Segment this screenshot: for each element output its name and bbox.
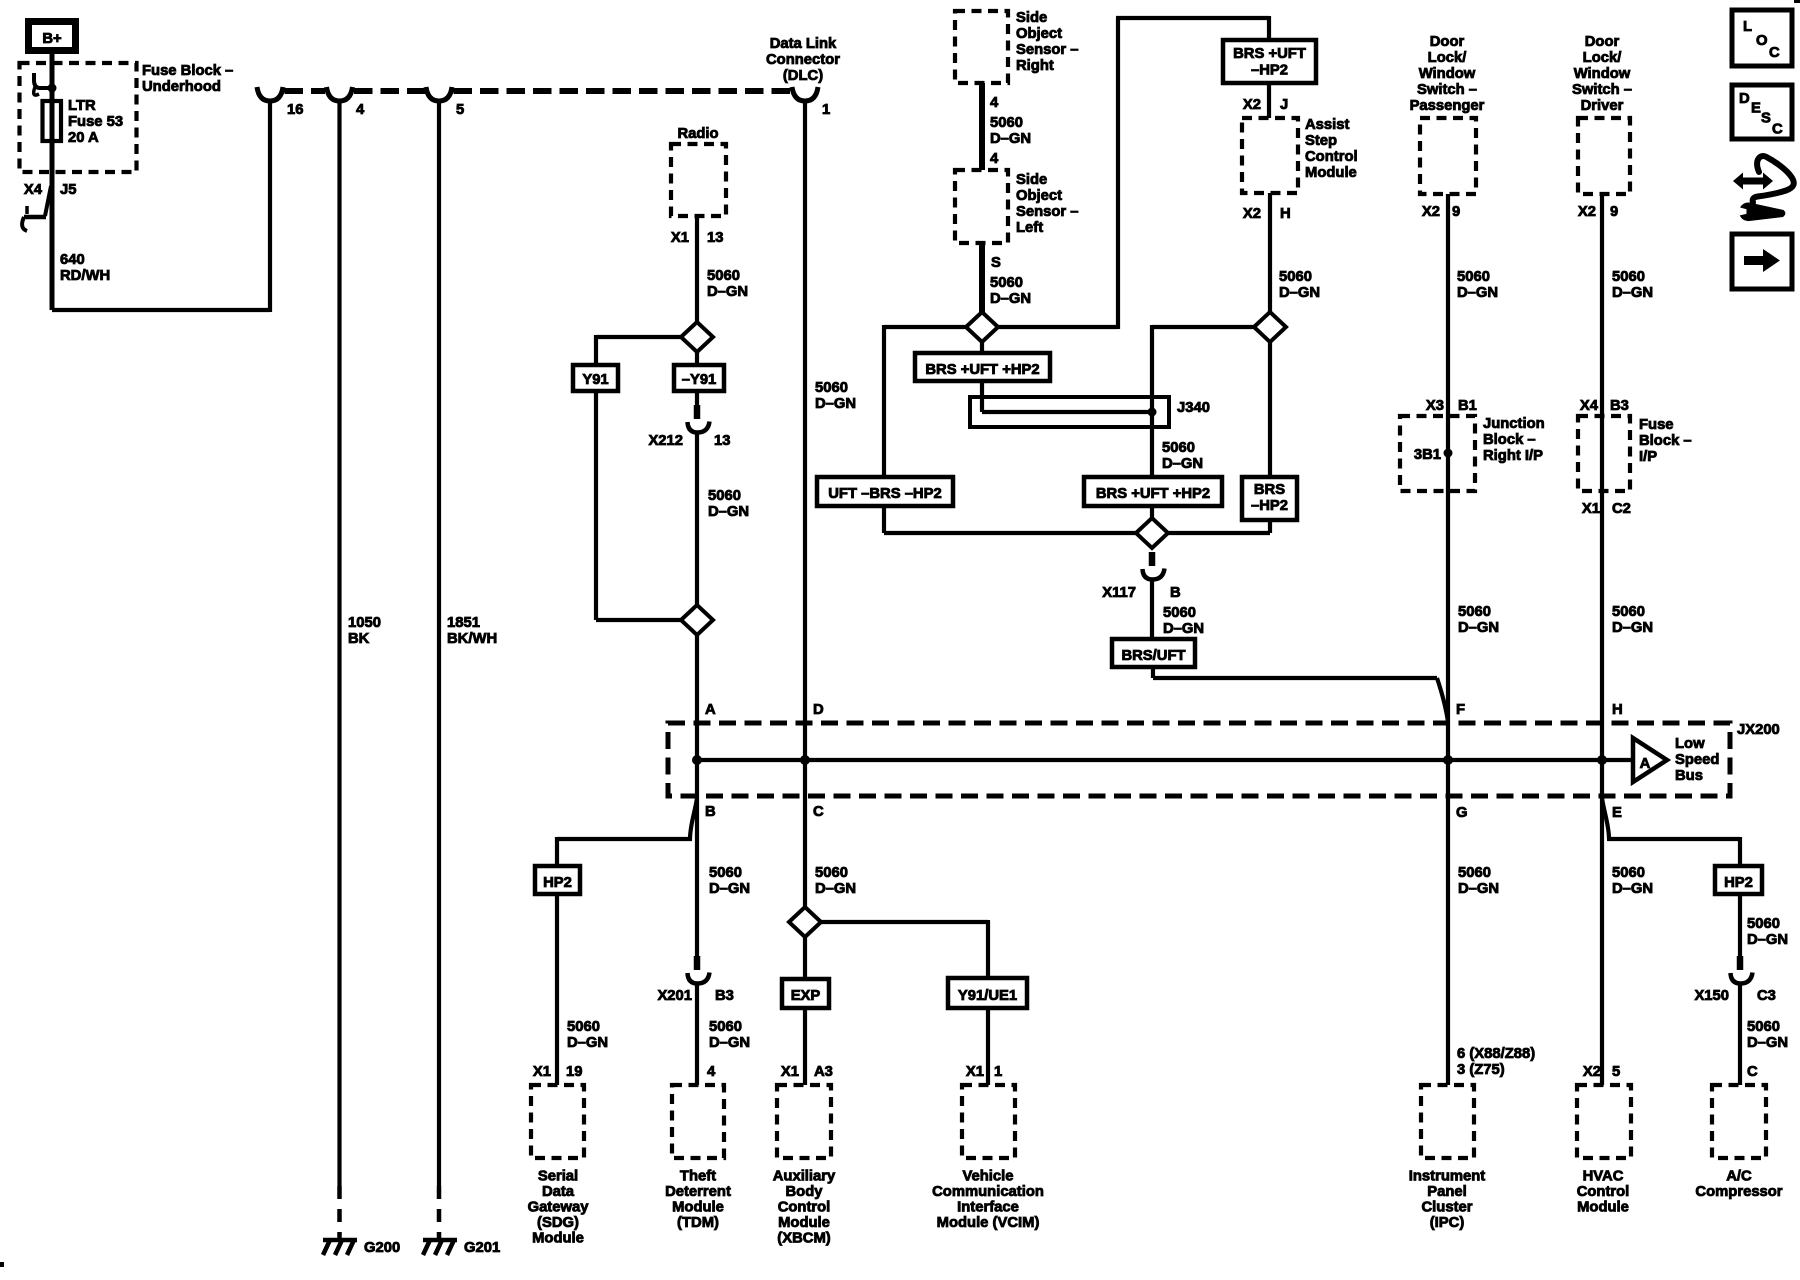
net box BRS +UFT +HP2 upper	[915, 353, 1050, 381]
wire label 5060 D-GN IPC	[1458, 865, 1499, 897]
wire label 5060 D-GN TDM upper	[709, 865, 750, 897]
wire bus pin B to TDM	[695, 760, 699, 1085]
wire EXP to XBCM	[803, 1008, 807, 1085]
wire label 5060 D-GN junction block	[1458, 604, 1499, 636]
wire label 5060 D-GN TDM lower	[709, 1019, 750, 1051]
svg-text:Module: Module	[532, 1231, 584, 1247]
svg-text:Window: Window	[1574, 66, 1631, 82]
svg-text:D–GN: D–GN	[1612, 620, 1653, 636]
svg-text:A/C: A/C	[1726, 1169, 1752, 1185]
wire label 5060 D-GN assist	[1279, 269, 1320, 301]
wire label 5060 D-GN SDG	[567, 1019, 608, 1051]
svg-text:O: O	[1756, 33, 1768, 49]
net box Y91/UE1	[948, 978, 1027, 1008]
svg-text:Theft: Theft	[680, 1169, 716, 1185]
svg-text:Deterrent: Deterrent	[665, 1184, 731, 1200]
wire label 5060 D-GN DLC	[815, 380, 856, 412]
net box EXP	[782, 979, 829, 1008]
svg-text:D–GN: D–GN	[815, 881, 856, 897]
net box HP2 left	[535, 866, 580, 894]
connector cup DLC pin 1	[792, 87, 818, 101]
pin labels X117 B	[1102, 585, 1181, 601]
svg-text:H: H	[1612, 702, 1623, 718]
svg-text:X1: X1	[781, 1064, 799, 1080]
svg-text:Door: Door	[1585, 34, 1620, 50]
wire label 5060 D-GN fuse block IP	[1612, 604, 1653, 636]
svg-text:X1: X1	[1582, 501, 1600, 517]
svg-text:(TDM): (TDM)	[677, 1215, 719, 1231]
junction dot 3B1	[1444, 449, 1453, 458]
svg-text:5060: 5060	[990, 115, 1023, 131]
svg-text:A3: A3	[814, 1064, 833, 1080]
connector hook at fuse block top	[34, 73, 52, 88]
wire diamond to Y91/UE1	[819, 920, 988, 978]
svg-text:Object: Object	[1016, 26, 1062, 42]
svg-text:20 A: 20 A	[68, 130, 99, 146]
svg-text:BK: BK	[348, 631, 370, 647]
connector cup pin 5	[426, 87, 452, 101]
svg-text:X212: X212	[648, 433, 683, 449]
svg-text:C: C	[1772, 122, 1783, 138]
svg-text:Fuse Block –: Fuse Block –	[142, 63, 233, 79]
wire diamond to -Y91	[695, 350, 699, 365]
wire to assist step module	[1267, 83, 1271, 118]
connector X117 symbol	[1143, 552, 1165, 580]
svg-text:X4: X4	[24, 182, 43, 198]
svg-text:BRS: BRS	[1254, 482, 1285, 498]
svg-text:4: 4	[990, 95, 999, 111]
svg-text:A: A	[1640, 756, 1651, 772]
svg-text:Window: Window	[1419, 66, 1476, 82]
net box -Y91	[674, 365, 724, 391]
pin labels X1 C2	[1582, 501, 1631, 517]
svg-text:13: 13	[707, 230, 723, 246]
svg-text:Underhood: Underhood	[142, 79, 221, 95]
svg-text:Serial: Serial	[538, 1169, 578, 1185]
label door lock window switch passenger	[1410, 34, 1485, 114]
svg-text:Instrument: Instrument	[1409, 1169, 1486, 1185]
label fuse block underhood	[142, 63, 233, 95]
splice diamond sensors	[966, 312, 998, 342]
fuse block underhood dashed output bus	[285, 88, 326, 94]
radio module dashed box	[671, 144, 726, 216]
wire -Y91 to lower diamond	[695, 391, 699, 608]
wire sensors diamond loop to assist step module	[996, 16, 1269, 329]
svg-text:5: 5	[456, 102, 464, 118]
svg-text:5060: 5060	[708, 488, 741, 504]
connector cup pin 16	[257, 87, 283, 101]
J340 junction outline rect	[970, 397, 1169, 427]
svg-text:BRS +UFT: BRS +UFT	[1233, 46, 1306, 62]
label side object sensor right	[1016, 10, 1079, 74]
ground stub dashed G201	[437, 1186, 442, 1238]
wire label 5060 D-GN AC upper	[1747, 916, 1788, 948]
svg-text:BK/WH: BK/WH	[447, 631, 497, 647]
svg-text:A: A	[705, 702, 716, 718]
svg-text:D–GN: D–GN	[709, 1035, 750, 1051]
svg-text:4: 4	[356, 102, 365, 118]
label low speed bus	[1675, 736, 1719, 784]
net box UFT -BRS -HP2	[817, 477, 953, 506]
svg-text:13: 13	[714, 433, 730, 449]
svg-text:5060: 5060	[1458, 865, 1491, 881]
wire label 1851 BK/WH	[447, 615, 497, 647]
svg-text:X2: X2	[1422, 204, 1440, 220]
svg-text:Side: Side	[1016, 10, 1047, 26]
wire diamond to EXP	[803, 935, 807, 979]
door lock window switch passenger dashed box	[1420, 118, 1476, 194]
net box BRS/UFT	[1112, 639, 1195, 667]
pin labels X2 J	[1243, 97, 1288, 113]
label door lock window switch driver	[1572, 34, 1632, 114]
svg-text:I/P: I/P	[1639, 449, 1657, 465]
svg-text:Y91: Y91	[582, 372, 608, 388]
svg-text:S: S	[1761, 111, 1771, 127]
net box BRS +UFT -HP2	[1223, 40, 1316, 83]
page corner tick top right	[1794, 0, 1800, 3]
wire bus pin G to IPC	[1446, 760, 1450, 1085]
svg-text:D–GN: D–GN	[1612, 881, 1653, 897]
wire Y91/UE1 to VCIM	[986, 1008, 990, 1085]
svg-text:Right I/P: Right I/P	[1483, 448, 1543, 464]
svg-text:Vehicle: Vehicle	[962, 1169, 1013, 1185]
svg-text:Connector: Connector	[766, 52, 840, 68]
svg-text:Control: Control	[1305, 149, 1358, 165]
wire diamond to bus pin A	[695, 633, 699, 760]
side object sensor left dashed box	[955, 170, 1008, 243]
svg-text:9: 9	[1610, 204, 1618, 220]
pin labels X2 9 driver	[1578, 204, 1618, 220]
ground stub dashed G200	[337, 1186, 342, 1238]
connector X4/J5 splice symbol	[22, 186, 51, 231]
svg-text:X117: X117	[1102, 585, 1136, 601]
svg-text:HVAC: HVAC	[1583, 1169, 1624, 1185]
theft deterrent module dashed box	[672, 1085, 724, 1158]
svg-text:X1: X1	[966, 1064, 984, 1080]
pin labels X1 19 SDG	[533, 1064, 583, 1080]
vehicle communication interface module dashed box	[962, 1085, 1015, 1158]
svg-text:Lock/: Lock/	[1583, 50, 1622, 66]
svg-text:B3: B3	[1610, 398, 1629, 414]
svg-text:Step: Step	[1305, 133, 1337, 149]
svg-text:Sensor –: Sensor –	[1016, 204, 1079, 220]
svg-text:LTR: LTR	[68, 98, 96, 114]
svg-text:C: C	[813, 804, 824, 820]
label vehicle communication interface module	[932, 1169, 1044, 1232]
svg-text:Left: Left	[1016, 220, 1043, 236]
svg-text:(DLC): (DLC)	[783, 68, 823, 84]
pin labels X4 B3	[1580, 398, 1629, 414]
label assist step control module	[1305, 117, 1358, 181]
svg-text:5060: 5060	[1612, 865, 1645, 881]
svg-text:3 (Z75): 3 (Z75)	[1457, 1062, 1505, 1078]
svg-text:640: 640	[60, 252, 85, 268]
wire label 5060 D-GN mid	[1162, 440, 1203, 472]
junction dot bus node D/C	[800, 755, 810, 765]
svg-text:5060: 5060	[1612, 269, 1645, 285]
svg-text:X2: X2	[1578, 204, 1596, 220]
wire HP2 right to X150	[1738, 894, 1742, 1085]
svg-text:9: 9	[1452, 204, 1460, 220]
connector X201 symbol	[688, 956, 710, 984]
wire Y91 down and across	[596, 391, 683, 620]
splice diamond radio bottom	[681, 605, 713, 635]
net box BRS -HP2	[1242, 477, 1297, 520]
svg-text:Bus: Bus	[1675, 768, 1703, 784]
fuse block underhood dashed box	[20, 63, 137, 172]
svg-text:X4: X4	[1580, 398, 1599, 414]
svg-text:C: C	[1747, 1064, 1758, 1080]
svg-text:X2: X2	[1243, 206, 1261, 222]
svg-text:Cluster: Cluster	[1422, 1200, 1473, 1216]
junction block right IP dashed box	[1400, 416, 1475, 491]
svg-text:X1: X1	[533, 1064, 551, 1080]
svg-text:G200: G200	[364, 1240, 400, 1256]
svg-text:Module: Module	[1577, 1200, 1629, 1216]
svg-text:(SDG): (SDG)	[537, 1215, 579, 1231]
svg-text:Switch –: Switch –	[1417, 82, 1477, 98]
wire bus pin E to HVAC	[1600, 760, 1604, 1085]
svg-text:D–GN: D–GN	[990, 131, 1031, 147]
svg-text:C2: C2	[1612, 501, 1631, 517]
wire sensor right pin 4 to sensor left pin 4	[979, 83, 985, 170]
splice diamond XBCM	[789, 907, 821, 937]
net box HP2 right	[1715, 866, 1762, 894]
svg-text:X2: X2	[1243, 97, 1261, 113]
svg-text:JX200: JX200	[1737, 722, 1780, 738]
wire assist module to diamond	[1268, 193, 1272, 314]
wire to Y91 branch	[596, 335, 683, 365]
svg-text:6 (X88/Z88): 6 (X88/Z88)	[1457, 1046, 1535, 1062]
svg-text:D–GN: D–GN	[990, 291, 1031, 307]
wire label 5060 D-GN	[990, 275, 1031, 307]
wire X117 to BRS/UFT	[1150, 578, 1154, 639]
svg-text:C3: C3	[1757, 988, 1776, 1004]
auxiliary body control module dashed box	[777, 1085, 831, 1158]
wire label 5060 D-GN AC lower	[1747, 1019, 1788, 1051]
svg-text:D–GN: D–GN	[708, 504, 749, 520]
svg-text:1050: 1050	[348, 615, 381, 631]
label side object sensor left	[1016, 172, 1079, 236]
splice diamond assist	[1254, 312, 1286, 342]
pin labels IPC 6 X88/Z88 3 Z75	[1457, 1046, 1535, 1078]
svg-text:Speed: Speed	[1675, 752, 1719, 768]
svg-text:D–GN: D–GN	[1457, 285, 1498, 301]
wire BRS -HP2 to diamond	[1164, 520, 1270, 533]
pin labels X3 B1	[1426, 398, 1477, 414]
svg-text:G: G	[1456, 805, 1468, 821]
wire diamond left to J340 column	[1152, 325, 1256, 477]
wire B+ to fuse block	[50, 54, 55, 310]
svg-text:Module: Module	[672, 1200, 724, 1216]
svg-text:(XBCM): (XBCM)	[777, 1231, 830, 1247]
svg-text:D–GN: D–GN	[1279, 285, 1320, 301]
svg-text:D–GN: D–GN	[1458, 620, 1499, 636]
svg-text:Module (VCIM): Module (VCIM)	[937, 1215, 1040, 1231]
net box Y91	[573, 365, 618, 391]
side object sensor right dashed box	[955, 11, 1008, 83]
label HVAC control module	[1577, 1169, 1630, 1216]
wire bus pin E fork to HP2 right	[1602, 798, 1740, 866]
connector X4 J5 labels	[24, 182, 77, 198]
svg-text:Module: Module	[1305, 165, 1357, 181]
icon DESC box	[1732, 85, 1792, 139]
wire BRS box to diamond	[1150, 506, 1154, 521]
fuse block IP dashed box	[1578, 416, 1630, 491]
wire label 5060 D-GN radio	[707, 268, 748, 300]
junction dot bus node F/G	[1443, 755, 1453, 765]
svg-text:EXP: EXP	[791, 988, 821, 1004]
ground symbol G200	[323, 1240, 357, 1255]
label auxiliary body control module	[773, 1169, 836, 1247]
svg-text:BRS +UFT +HP2: BRS +UFT +HP2	[1096, 486, 1210, 502]
ground symbol G201	[423, 1240, 457, 1255]
pin labels X2 5 HVAC	[1583, 1064, 1620, 1080]
svg-text:5060: 5060	[1457, 269, 1490, 285]
wire label 640 RD/WH	[60, 252, 110, 284]
svg-text:D: D	[1739, 91, 1750, 107]
wire diamond down to BRS -HP2	[1268, 340, 1272, 477]
fuse block underhood junction dot	[48, 84, 57, 93]
svg-text:X3: X3	[1426, 398, 1444, 414]
svg-text:Gateway: Gateway	[528, 1200, 590, 1216]
svg-text:E: E	[1612, 805, 1622, 821]
svg-text:BRS +UFT +HP2: BRS +UFT +HP2	[925, 362, 1039, 378]
svg-text:Compressor: Compressor	[1695, 1184, 1782, 1200]
svg-text:J340: J340	[1177, 400, 1210, 416]
svg-text:5060: 5060	[567, 1019, 600, 1035]
splice diamond X117	[1136, 518, 1168, 548]
svg-text:Communication: Communication	[932, 1184, 1044, 1200]
svg-text:Lock/: Lock/	[1428, 50, 1467, 66]
svg-text:L: L	[1743, 19, 1752, 35]
wire label 5060 D-GN	[708, 488, 749, 520]
svg-text:Control: Control	[1577, 1184, 1630, 1200]
svg-text:19: 19	[566, 1064, 582, 1080]
battery B+ symbol	[29, 22, 76, 51]
AC compressor dashed box	[1712, 1085, 1766, 1158]
svg-text:H: H	[1280, 206, 1291, 222]
wire driver switch to bus pin H	[1600, 194, 1604, 760]
svg-text:B3: B3	[715, 988, 734, 1004]
svg-text:Passenger: Passenger	[1410, 98, 1485, 114]
pin labels X1 13	[671, 230, 724, 246]
svg-text:16: 16	[287, 102, 303, 118]
svg-text:4: 4	[990, 151, 999, 167]
svg-text:1851: 1851	[447, 615, 480, 631]
svg-text:Panel: Panel	[1427, 1184, 1466, 1200]
svg-text:Module: Module	[778, 1215, 830, 1231]
svg-text:4: 4	[707, 1064, 716, 1080]
svg-text:J5: J5	[60, 182, 76, 198]
svg-text:D–GN: D–GN	[1612, 285, 1653, 301]
svg-text:5060: 5060	[1162, 440, 1195, 456]
svg-text:5060: 5060	[1747, 1019, 1780, 1035]
svg-text:Data: Data	[542, 1184, 575, 1200]
svg-text:HP2: HP2	[543, 875, 572, 891]
wire label 1050 BK	[348, 615, 381, 647]
svg-text:D–GN: D–GN	[1747, 1035, 1788, 1051]
junction dot bus node H/E	[1597, 755, 1607, 765]
svg-text:UFT –BRS –HP2: UFT –BRS –HP2	[828, 486, 941, 502]
svg-text:5060: 5060	[1458, 604, 1491, 620]
label serial data gateway module	[528, 1169, 590, 1247]
connector X212 symbol	[688, 405, 710, 433]
svg-text:–HP2: –HP2	[1251, 63, 1288, 79]
svg-text:5060: 5060	[707, 268, 740, 284]
label fuse block IP	[1639, 417, 1692, 465]
svg-text:D–GN: D–GN	[1747, 932, 1788, 948]
splice diamond radio top	[681, 322, 713, 352]
page speck bottom left	[0, 1262, 4, 1267]
icon LOC box	[1732, 10, 1792, 66]
svg-text:G201: G201	[464, 1240, 500, 1256]
pin labels X201 B3	[657, 988, 733, 1004]
wire passenger switch to bus pin F	[1446, 194, 1450, 760]
svg-text:5060: 5060	[815, 865, 848, 881]
svg-text:HP2: HP2	[1724, 875, 1753, 891]
svg-text:Low: Low	[1675, 736, 1705, 752]
HVAC control module dashed box	[1577, 1085, 1631, 1158]
svg-text:RD/WH: RD/WH	[60, 268, 110, 284]
connector X150 symbol	[1731, 956, 1753, 984]
net box BRS +UFT +HP2 lower	[1084, 477, 1222, 506]
svg-text:5060: 5060	[1612, 604, 1645, 620]
svg-text:Assist: Assist	[1305, 117, 1349, 133]
svg-text:Y91/UE1: Y91/UE1	[958, 988, 1017, 1004]
svg-text:B: B	[705, 804, 716, 820]
wire into J340 junction	[982, 381, 1152, 412]
svg-text:5060: 5060	[709, 865, 742, 881]
svg-text:D–GN: D–GN	[1458, 881, 1499, 897]
pin labels X2 H	[1243, 206, 1291, 222]
svg-text:D–GN: D–GN	[1162, 456, 1203, 472]
svg-text:(IPC): (IPC)	[1430, 1215, 1465, 1231]
svg-text:5: 5	[1612, 1064, 1620, 1080]
svg-text:5060: 5060	[990, 275, 1023, 291]
wire HP2 to SDG module	[555, 894, 559, 1085]
svg-text:5060: 5060	[1279, 269, 1312, 285]
svg-text:Radio: Radio	[677, 126, 718, 142]
wire sensors diamond down to BRS +UFT +HP2	[980, 340, 984, 353]
junction dot J340	[1148, 408, 1157, 417]
low speed bus amplifier triangle A	[1633, 738, 1667, 782]
label junction block right IP	[1483, 416, 1545, 464]
svg-text:Object: Object	[1016, 188, 1062, 204]
svg-text:Fuse: Fuse	[1639, 417, 1674, 433]
label instrument panel cluster	[1409, 1169, 1486, 1232]
svg-text:Control: Control	[778, 1200, 831, 1216]
door lock window switch driver dashed box	[1578, 118, 1630, 194]
svg-text:5060: 5060	[815, 380, 848, 396]
wire radio pin X1 13	[695, 216, 699, 323]
assist step control module dashed box	[1242, 118, 1298, 193]
svg-text:B: B	[1170, 585, 1181, 601]
svg-text:X2: X2	[1583, 1064, 1601, 1080]
svg-text:D–GN: D–GN	[815, 396, 856, 412]
instrument panel cluster dashed box	[1421, 1085, 1474, 1158]
svg-text:–HP2: –HP2	[1251, 498, 1288, 514]
svg-text:D–GN: D–GN	[707, 284, 748, 300]
svg-text:Sensor –: Sensor –	[1016, 42, 1079, 58]
svg-text:X1: X1	[671, 230, 689, 246]
svg-text:Block –: Block –	[1483, 432, 1536, 448]
svg-text:5060: 5060	[709, 1019, 742, 1035]
wire 640 RD/WH run	[52, 99, 270, 312]
svg-text:–Y91: –Y91	[682, 372, 717, 388]
fuse LTR Fuse 53 20 A	[43, 98, 124, 146]
pin labels X150 C3	[1694, 988, 1775, 1004]
